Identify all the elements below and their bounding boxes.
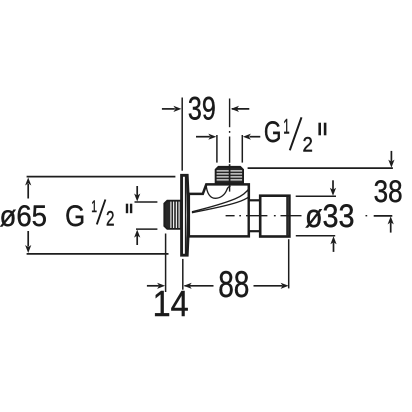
- dim 88: right extension line: [288, 239, 290, 288]
- vertical centerline (top thread axis): [229, 99, 231, 192]
- svg-text:2: 2: [303, 132, 313, 156]
- dim 88: left arrow (left-pointing): [184, 283, 214, 289]
- dim ø65: bottom extension line: [27, 253, 169, 255]
- dim 39: right arrow: [231, 106, 249, 112]
- svg-text:G: G: [65, 200, 85, 233]
- dim G1/2 left: bottom tick: [136, 228, 157, 230]
- label ø65 G1/2": [0, 198, 132, 233]
- top thread G1/2: [216, 167, 243, 184]
- dim ø65: bottom arrow (down): [25, 231, 31, 253]
- horizontal centerline (outlet axis): [226, 215, 368, 217]
- dim G1/2 left: top arrow (down): [134, 186, 140, 202]
- dim 14/88: extension line below flange: [182, 259, 184, 290]
- dim 88: right arrow (right-pointing): [254, 283, 289, 289]
- left thread G1/2: [164, 201, 181, 229]
- flange (wall plate) ø65: [182, 175, 189, 255]
- valve body: [189, 184, 249, 236]
- dim 14/88: extension line below thread: [165, 234, 167, 293]
- dim ø33: bottom extension line: [296, 235, 335, 237]
- dim G1/2 top: left arrow: [196, 134, 216, 140]
- dim 39: left arrow: [162, 106, 182, 112]
- dim 14: left arrow (right-pointing): [147, 283, 165, 289]
- dim 38: bottom arrow (up): [388, 216, 394, 232]
- outlet neck: [249, 200, 260, 231]
- body casting curve upper: [192, 188, 249, 212]
- outlet end inner line: [286, 197, 288, 236]
- dim G1/2 top: right arrow: [243, 134, 260, 140]
- dim G1/2 left: top tick: [135, 201, 158, 203]
- svg-text:G: G: [264, 116, 282, 149]
- svg-text:2: 2: [106, 207, 115, 230]
- dim 39: left extension line: [181, 98, 183, 171]
- svg-text:14: 14: [153, 283, 189, 324]
- svg-text:39: 39: [188, 89, 216, 126]
- dim G1/2 top: extension ticks: [216, 135, 218, 163]
- body dome curve under thread: [206, 185, 230, 199]
- dim ø33: bottom arrow (up): [330, 236, 336, 252]
- dim ø65: top extension line: [27, 176, 176, 178]
- dim 38: top arrow (down): [388, 151, 394, 168]
- svg-text:1: 1: [91, 198, 97, 216]
- dim ø65: top arrow (up): [25, 178, 31, 199]
- label G1/2 top: [264, 114, 327, 156]
- svg-text:1: 1: [283, 114, 289, 138]
- dim G1/2 left: bottom arrow (up): [134, 230, 140, 245]
- svg-text:38: 38: [374, 173, 403, 209]
- dim 38: bottom extension (centerline level): [374, 215, 393, 217]
- svg-text:88: 88: [218, 264, 249, 305]
- dim ø33: top extension line: [296, 195, 336, 197]
- dim 38: top extension line: [248, 167, 393, 169]
- dim ø33: top arrow (down): [330, 180, 336, 195]
- outlet cylinder ø33: [260, 196, 289, 237]
- svg-text:ø33: ø33: [305, 198, 355, 234]
- body casting curve lower: [192, 196, 250, 213]
- svg-text:ø65: ø65: [0, 200, 47, 233]
